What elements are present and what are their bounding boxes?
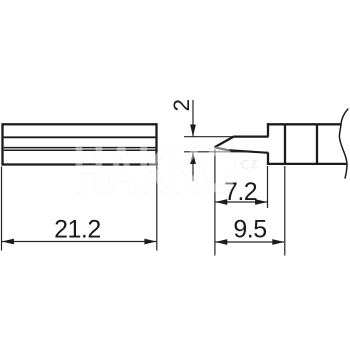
watermark cz [242,160,257,168]
dim 7.2 line [215,201,267,203]
dim 2 leader below [192,152,194,181]
shank left face lower [267,153,269,165]
arrowhead 21.2 left [2,239,14,245]
dim 2 extension line bottom [184,151,247,153]
blade bottom edge [215,147,269,153]
arrowhead 9.5 right [272,239,284,245]
arrowhead 2 top (pointing down) [190,125,196,137]
blade top edge [215,137,269,148]
break wavy line [339,109,348,179]
watermark HAKKO [73,133,257,207]
shank cylinder top edge [267,123,342,125]
tip body side view: outer rectangle [3,124,157,164]
dim 21.2 line [2,241,156,243]
svg-text:2: 2 [169,99,194,112]
shank inner vertical 2 [316,124,318,164]
dim 7.2 extension line right [267,166,269,208]
dim 9.5 extension line right [284,166,286,256]
dim 9.5 line [215,241,284,243]
svg-text:21.2: 21.2 [54,216,101,244]
dim 21.2 extension line right [156,167,158,251]
dim 21.2 extension line left [1,167,3,251]
dim 2 leader above [192,100,194,137]
tip body inner line pair B [4,149,156,151]
svg-text:HAKKO: HAKKO [73,133,238,207]
shank inner vertical 1 [284,124,286,164]
shank left face upper [267,123,269,136]
tip body inner line upper [4,136,156,138]
arrowhead 7.2 left [215,199,227,205]
shank cylinder bottom edge [267,163,347,165]
dim 7.2/9.5 extension line left [214,150,216,256]
arrowhead 9.5 left [215,239,227,245]
tip body inner line pair A [4,147,156,149]
dim 2 extension line top [184,136,232,138]
arrowhead 21.2 right [144,239,156,245]
arrowhead 7.2 right [255,199,267,205]
svg-text:9.5: 9.5 [233,215,266,243]
arrowhead 2 bottom (pointing up) [190,152,196,164]
